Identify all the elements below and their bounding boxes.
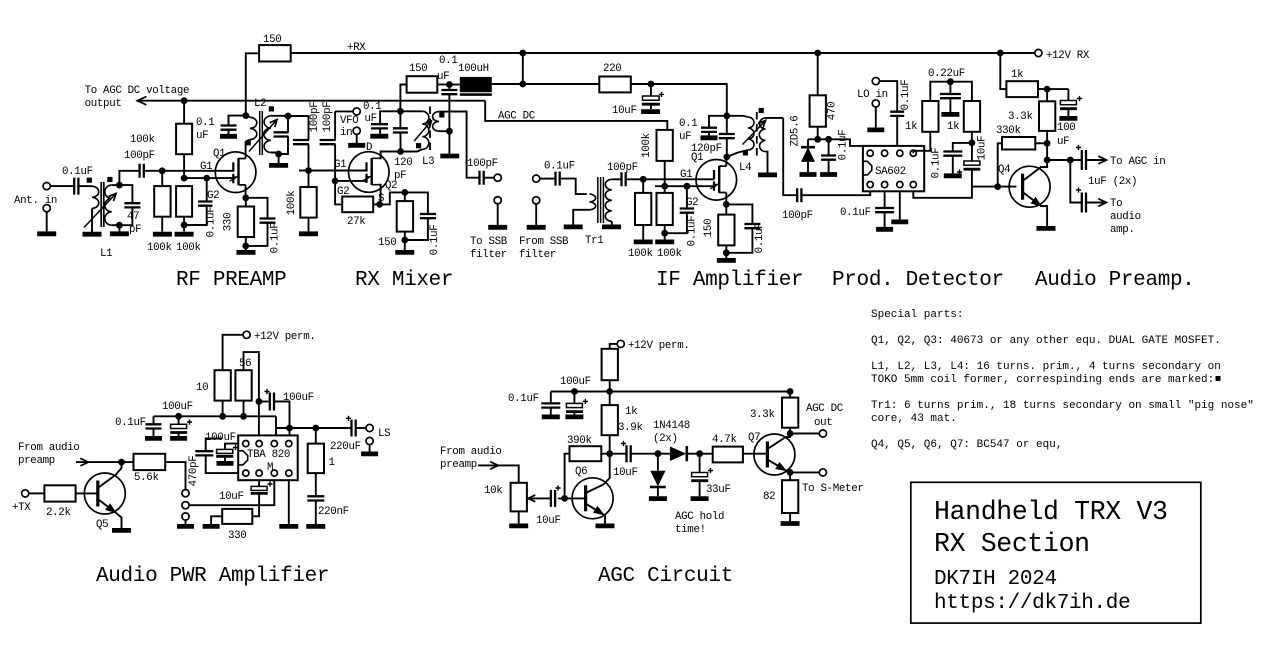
marker L1 primary phase square (87, 178, 92, 183)
resistor 150 +RX feed (259, 45, 291, 61)
svg-text:L1: L1 (100, 248, 112, 260)
node L3 primary top (397, 108, 404, 115)
wire Q1 source (245, 185, 247, 198)
capacitor 0.1uF IF drain decoupling (709, 116, 727, 128)
svg-text:Q7: Q7 (748, 432, 760, 444)
svg-text:47: 47 (127, 211, 139, 223)
capacitor 10uF Q6 out (610, 453, 627, 455)
wire 220 to IF amp (631, 84, 727, 116)
capacitor 220uF speaker (348, 427, 351, 429)
resistor 4.7k Q7 base (700, 453, 713, 455)
wire +TX to 2.2k (29, 492, 45, 494)
transformer L2 secondary winding (264, 116, 271, 153)
node 1k out (1044, 86, 1051, 93)
transistor Q4 NPN (1009, 166, 1050, 207)
svg-text:To AGC DC voltage: To AGC DC voltage (85, 85, 190, 97)
node Q1 G2 cap tap (203, 175, 210, 182)
svg-text:preamp: preamp (18, 455, 55, 467)
svg-text:1k: 1k (1011, 69, 1023, 81)
svg-text:33uF: 33uF (706, 484, 731, 496)
ground Q2 source (395, 250, 414, 255)
svg-text:0.1uF: 0.1uF (62, 166, 93, 178)
svg-text:pF: pF (394, 170, 406, 182)
terminal Ant. in (ground side) (43, 205, 50, 212)
node L1 secondary bottom (116, 222, 123, 229)
wire 100pF to terminal (484, 177, 494, 179)
svg-text:pF: pF (129, 224, 141, 236)
svg-text:Q1, Q2, Q3: 40673 or any other: Q1, Q2, Q3: 40673 or any other equ. DUAL… (871, 335, 1221, 347)
svg-text:10uF: 10uF (219, 491, 244, 503)
svg-text:10: 10 (196, 382, 208, 394)
svg-text:in: in (340, 127, 352, 139)
node IF G1 (640, 176, 647, 183)
svg-text:AGC DC: AGC DC (498, 111, 536, 123)
wire 100pF to G1 node (308, 144, 310, 170)
svg-text:220uF: 220uF (330, 441, 361, 453)
pin TBA 6 bottom (256, 470, 262, 476)
ground 100k G1 (153, 232, 172, 237)
capacitor 0.1uF SA602 bottom (875, 208, 894, 212)
ground L1 secondary (110, 231, 129, 236)
svg-text:100pF: 100pF (782, 210, 813, 222)
svg-text:filter: filter (519, 249, 556, 261)
wire 330k right (1035, 142, 1047, 144)
resistor 390k Q6 feedback (601, 453, 609, 455)
svg-text:out: out (814, 417, 832, 429)
capacitor 33uF AGC hold (699, 454, 701, 473)
wire L3 secondary line (448, 94, 450, 153)
node AGC rail end (787, 388, 794, 395)
IC TBA820M (238, 435, 298, 480)
node Q1 source (242, 194, 249, 201)
wire rail to 1k (1000, 53, 1006, 89)
svg-text:Tr1: 6 turns prim., 18 turns s: Tr1: 6 turns prim., 18 turns secondary o… (871, 400, 1254, 412)
svg-text:0.1uF: 0.1uF (687, 216, 699, 247)
ground 0.1uF det audio (944, 173, 962, 178)
wire Q1 IF source (725, 193, 727, 205)
transformer Tr1 secondary (605, 179, 612, 221)
node output line (286, 425, 293, 432)
terminal From SSB filter (533, 175, 540, 182)
svg-text:G2: G2 (337, 186, 349, 198)
pin TBA 3 top (271, 441, 277, 447)
capacitor 100pF to mixer G1 (293, 140, 309, 144)
svg-text:150: 150 (378, 237, 396, 249)
wire rail audio amp (154, 415, 277, 417)
wire 10uF to Q4 base (972, 186, 1017, 188)
svg-text:1k: 1k (905, 121, 917, 133)
svg-text:D: D (366, 142, 372, 154)
wire pot top input (478, 465, 519, 482)
svg-text:100pF: 100pF (309, 102, 321, 133)
resistor 100k G2 to ground (176, 186, 192, 217)
arrow Q7 emitter (776, 463, 786, 471)
node 0.22uF supply (947, 78, 954, 85)
node detector out (696, 450, 703, 457)
capacitor 0.1uF G2 decoupling (206, 178, 208, 201)
svg-text:0.22uF: 0.22uF (928, 68, 965, 80)
svg-text:core, 43 mat.: core, 43 mat. (871, 413, 957, 425)
wire 100uF bootstrap to output (274, 402, 290, 429)
svg-text:150: 150 (263, 34, 281, 46)
node mixer G1 (305, 167, 312, 174)
resistor 1k audio preamp supply (1006, 81, 1038, 97)
wire mixer G1 (299, 170, 367, 172)
wire SA602 pin7 to ground (899, 191, 901, 219)
resistor 27k mixer G2 to ground (335, 181, 342, 205)
transformer Tr1 core (597, 177, 599, 223)
terminal audio input mid (182, 502, 189, 509)
ground 330 TBA (203, 524, 220, 529)
svg-text:(2x): (2x) (653, 433, 678, 445)
capacitor 100uF audio rail electrolytic (178, 416, 180, 424)
wire output line (276, 427, 348, 429)
arrow Q5 emitter (106, 504, 116, 512)
capacitor 0.1uF IF source bypass (726, 204, 752, 224)
arrow pot wiper (528, 495, 535, 502)
node 100k G2 bottom (181, 222, 188, 229)
wire Q4 emitter (1023, 192, 1048, 226)
marker L3 primary phase square (416, 143, 421, 148)
node 330 bottom (242, 243, 249, 250)
transformer L2 tuning arrow (249, 120, 277, 152)
wire 1k right to node (971, 132, 973, 143)
ground 100uF ripple (217, 461, 234, 466)
marker L2 secondary phase square (269, 106, 274, 111)
svg-text:0.1uF: 0.1uF (429, 225, 441, 256)
marker L4 secondary phase square (759, 108, 764, 113)
svg-text:To: To (1110, 198, 1122, 210)
ground 0.22uF (941, 112, 959, 117)
node 10uF tap (648, 81, 655, 88)
svg-text:100pF: 100pF (607, 162, 638, 174)
node 100k G2 bottom IF (661, 230, 668, 237)
resistor box 100uF AGC supply (602, 349, 618, 380)
wire 330k left to base (998, 143, 1002, 186)
ground Q4 emitter (1037, 226, 1056, 231)
wire TBA pin8 ground (288, 480, 290, 524)
wire Q2 drain (379, 152, 401, 159)
svg-text:0.1: 0.1 (439, 55, 457, 67)
terminal +12V RX (1035, 49, 1042, 56)
node Q2 source (376, 201, 383, 208)
resistor 1 boucherot (315, 428, 317, 444)
wire 10uF to pot wiper (529, 497, 551, 499)
svg-text:120: 120 (394, 157, 412, 169)
resistor 10 supply (215, 370, 231, 400)
terminal LO in (872, 78, 879, 85)
node rail 56 (240, 413, 247, 420)
svg-text:100uF: 100uF (560, 376, 591, 388)
node 0.1uF mixer top (446, 81, 453, 88)
transistor Q2 dual gate MOSFET (349, 152, 390, 193)
wire Q7 collector (767, 434, 790, 450)
svg-text:3.3k: 3.3k (750, 409, 775, 421)
capacitor 120pF L3 tank (399, 111, 401, 128)
wire Q2 source (379, 185, 381, 205)
svg-text:220: 220 (603, 63, 621, 75)
ground 100k G2 (175, 232, 194, 237)
wire L1 secondary bottom to ground (118, 225, 120, 231)
capacitor 1uF to AGC (1070, 159, 1082, 161)
node rail 10 (219, 413, 226, 420)
wire 56 bottom to rail (243, 401, 245, 417)
terminal LS top (366, 424, 373, 431)
capacitor 0.1uF Q1 source bypass (246, 198, 268, 219)
wire 3.3k to collector node (1046, 131, 1048, 160)
transistor Q7 NPN AGC out (754, 434, 795, 475)
svg-text:3.9k: 3.9k (618, 422, 643, 434)
svg-text:390k: 390k (567, 435, 592, 447)
wire 1k left to pin4 (913, 132, 930, 153)
svg-text:4.7k: 4.7k (712, 434, 737, 446)
node L2 secondary top (285, 113, 292, 120)
svg-text:uF: uF (679, 131, 691, 143)
svg-text:Q1: Q1 (213, 148, 225, 160)
ground LS (361, 451, 378, 456)
wire S-meter out (790, 471, 819, 473)
arrow Q6 emitter (594, 507, 604, 515)
svg-text:100pF: 100pF (322, 102, 334, 133)
wire 5.6k to input terminal (165, 462, 185, 490)
node Q4 base (994, 183, 1001, 190)
svg-text:100pF: 100pF (467, 158, 498, 170)
svg-text:0.1: 0.1 (196, 117, 214, 129)
marker L4 primary phase square (743, 150, 748, 155)
svg-text:Audio Preamp.: Audio Preamp. (1035, 269, 1195, 292)
wire L3 primary top (400, 110, 422, 112)
node rectifier input (655, 450, 662, 457)
capacitor 100pF coupling to Q1 G1 (140, 164, 144, 178)
svg-text:27k: 27k (347, 216, 365, 228)
capacitor 0.1uF AGC rail (550, 392, 552, 404)
wire Q7 emitter (767, 460, 790, 473)
ground To SSB (488, 225, 507, 230)
svg-text:+RX: +RX (347, 42, 366, 54)
node L2 secondary bottom (275, 151, 282, 158)
capacitor 10uF electrolytic IF supply (650, 84, 652, 96)
svg-text:0.1uF: 0.1uF (900, 80, 912, 111)
svg-text:150: 150 (409, 63, 427, 75)
capacitor 47pF across L1 secondary (119, 185, 132, 203)
svg-text:10k: 10k (484, 485, 502, 497)
resistor 150 Q2 source (404, 192, 406, 201)
svg-text:To S-Meter: To S-Meter (802, 483, 864, 495)
ground pot 10k (509, 524, 528, 529)
svg-text:0.1uF: 0.1uF (206, 207, 218, 238)
resistor 3.3k AGC collector (789, 392, 791, 398)
ground 100k IF G2 (655, 239, 674, 244)
svg-text:220nF: 220nF (318, 506, 349, 518)
svg-text:LO in: LO in (857, 89, 888, 101)
capacitor 10uF coupling to Q4 (971, 143, 973, 161)
wire AGC DC mid line (485, 101, 667, 130)
node det audio (969, 140, 976, 147)
wire 1k to 3.3k (1038, 88, 1068, 90)
terminal To S-Meter (819, 469, 826, 476)
svg-text:Special parts:: Special parts: (871, 309, 963, 321)
ground 100uF AGC rail (565, 414, 583, 419)
svg-text:0.1uF: 0.1uF (115, 417, 146, 429)
svg-text:0.1: 0.1 (363, 101, 381, 113)
wire zener node to SA602 (829, 139, 863, 146)
wire ant gnd stem (46, 212, 48, 232)
transistor Q5 NPN mute (84, 473, 125, 514)
svg-text:100k: 100k (286, 191, 298, 216)
svg-text:100: 100 (1057, 122, 1075, 134)
node G1 bias (159, 167, 166, 174)
ground audio input (177, 524, 194, 529)
wire 150 left to L2 node (246, 53, 259, 115)
node Q7 emitter (787, 469, 794, 476)
node 150 source bottom (401, 237, 408, 244)
pin SA602 4 top (910, 150, 916, 156)
resistor 5.6k mute feed (134, 454, 166, 470)
resistor 82 emitter (789, 472, 791, 480)
terminal +TX (22, 490, 29, 497)
svg-text:LS: LS (378, 428, 390, 440)
resistor 2.2k TX mute (44, 485, 75, 501)
ground TBA pin8 (279, 524, 298, 529)
resistor 330 TBA gain (222, 509, 252, 524)
pin SA602 3 top (897, 150, 903, 156)
svg-text:From audio: From audio (440, 446, 502, 458)
ground Tr1 primary (564, 224, 583, 229)
wire Q1 G2 (184, 177, 233, 179)
ground ant (37, 231, 56, 236)
svg-text:Q4, Q5, Q6, Q7: BC547 or equ,: Q4, Q5, Q6, Q7: BC547 or equ, (871, 439, 1062, 451)
capacitor 100pF VFO to mixer G2 (334, 111, 336, 140)
svg-text:10uF: 10uF (612, 105, 637, 117)
wire 1k to Q6 collector (609, 435, 611, 454)
wire From SSB gnd stem (535, 204, 537, 225)
marker note square (1216, 376, 1221, 381)
IC SA602 (863, 146, 924, 191)
wire 150 left to L3 (400, 85, 406, 112)
pin SA602 7 bottom (897, 182, 903, 188)
ground 0.1uF det (820, 172, 837, 177)
resistor 56 bootstrap (235, 370, 251, 400)
marker L3 secondary phase square (439, 112, 444, 117)
svg-text:uF: uF (365, 113, 377, 125)
transformer L4 primary winding (748, 117, 754, 150)
wire Q5 emitter (98, 499, 122, 528)
wire input gnd stem (185, 520, 187, 524)
wire 1uF audio arrow (1086, 202, 1107, 204)
svg-text:https://dk7ih.de: https://dk7ih.de (934, 592, 1130, 615)
resistor 1k SA602 right (950, 82, 972, 101)
transformer L3 secondary winding (433, 112, 440, 132)
node speaker resistor tap (312, 425, 319, 432)
resistor 3.3k Q4 collector (1046, 89, 1048, 101)
transformer L1 secondary winding (105, 185, 112, 225)
wire +RX rail (291, 52, 1039, 54)
node Q5 collector (118, 459, 125, 466)
pin TBA 5 bottom (243, 470, 249, 476)
wire 330 to ground (211, 516, 222, 524)
ground LO (867, 127, 884, 132)
resistor 150 IF source (725, 204, 727, 214)
wire mixer G2 (335, 180, 367, 182)
svg-text:uF: uF (1057, 136, 1069, 148)
capacitor 100uF AGC rail (573, 392, 575, 404)
pin SA602 8 bottom (910, 182, 916, 188)
svg-text:+TX: +TX (12, 502, 31, 514)
svg-text:150: 150 (703, 219, 715, 237)
ground 220nF (306, 524, 325, 529)
capacitor 0.1uF L3 to gnd (448, 85, 450, 91)
capacitor 0.1uF LO coupling (879, 81, 897, 112)
wire LS gnd stem (369, 445, 371, 452)
svg-text:audio: audio (1110, 211, 1141, 223)
svg-text:100k: 100k (628, 248, 653, 260)
wire 100pF to Q1 G1 (144, 170, 234, 172)
capacitor 100pF detector input (797, 188, 801, 202)
node rail 1k drop (997, 50, 1004, 57)
svg-text:DK7IH 2024: DK7IH 2024 (934, 568, 1057, 591)
node IF source (723, 201, 730, 208)
ground shunt diode (649, 496, 667, 501)
svg-text:Audio PWR Amplifier: Audio PWR Amplifier (96, 565, 329, 588)
svg-text:output: output (85, 98, 122, 110)
svg-text:G1: G1 (680, 169, 692, 181)
node AGC DC out (787, 430, 794, 437)
potentiometer 10k (511, 483, 527, 512)
wire 150 IF to ground (725, 253, 727, 258)
resistor 1k 3.9k Q6 collector (602, 405, 618, 435)
svg-text:RX Section: RX Section (934, 529, 1090, 559)
wire Q6 emitter (586, 504, 605, 524)
wire 3.3k to collector node (789, 428, 791, 434)
wire L3 tap to SSB 100pF (449, 112, 479, 178)
pin SA602 6 bottom (882, 182, 888, 188)
wire TBA pin7 input (186, 480, 274, 505)
terminal AGC DC out (819, 430, 826, 437)
transistor Q1 IF dual gate MOSFET (696, 160, 737, 201)
svg-text:+12V perm.: +12V perm. (628, 340, 690, 352)
svg-text:100uF: 100uF (162, 401, 193, 413)
svg-text:1: 1 (329, 457, 335, 469)
node IF G2 cap tap (684, 183, 691, 190)
node 0.1uF det tap (825, 136, 832, 143)
capacitor 100uF ripple (225, 444, 238, 450)
wire pot bottom (518, 511, 520, 523)
wire 27k to source node (373, 203, 379, 205)
svg-text:10uF: 10uF (613, 467, 638, 479)
transistor Q1 dual gate MOSFET (215, 152, 256, 193)
wire Tr1 100pF to Q1 G1 (626, 178, 714, 180)
svg-text:TBA 820: TBA 820 (247, 449, 290, 461)
wire Q4 collector (1023, 160, 1048, 181)
ground SA602 0.1uF (876, 227, 893, 232)
svg-text:2.2k: 2.2k (46, 507, 71, 519)
wire AGC DC output line (137, 100, 485, 102)
svg-text:100k: 100k (176, 242, 201, 254)
wire Q6 collector entry (586, 454, 610, 493)
ground 0.1uF AGC rail (542, 414, 560, 419)
ground 82 (781, 521, 800, 526)
svg-text:TOKO 5mm coil former, correspi: TOKO 5mm coil former, correspinding ends… (871, 374, 1214, 386)
svg-text:Prod. Detector: Prod. Detector (832, 269, 1004, 292)
resistor 220 IF supply (599, 77, 631, 93)
svg-text:Tr1: Tr1 (585, 235, 603, 247)
wire 100k G2 to ground (183, 225, 185, 232)
svg-text:Q4: Q4 (998, 164, 1010, 176)
pin SA602 5 bottom (867, 182, 873, 188)
wire ant to C1 (50, 185, 74, 187)
wire 0.1uF to Tr1 (560, 179, 587, 195)
transformer L1 tuning arrow (84, 194, 116, 228)
